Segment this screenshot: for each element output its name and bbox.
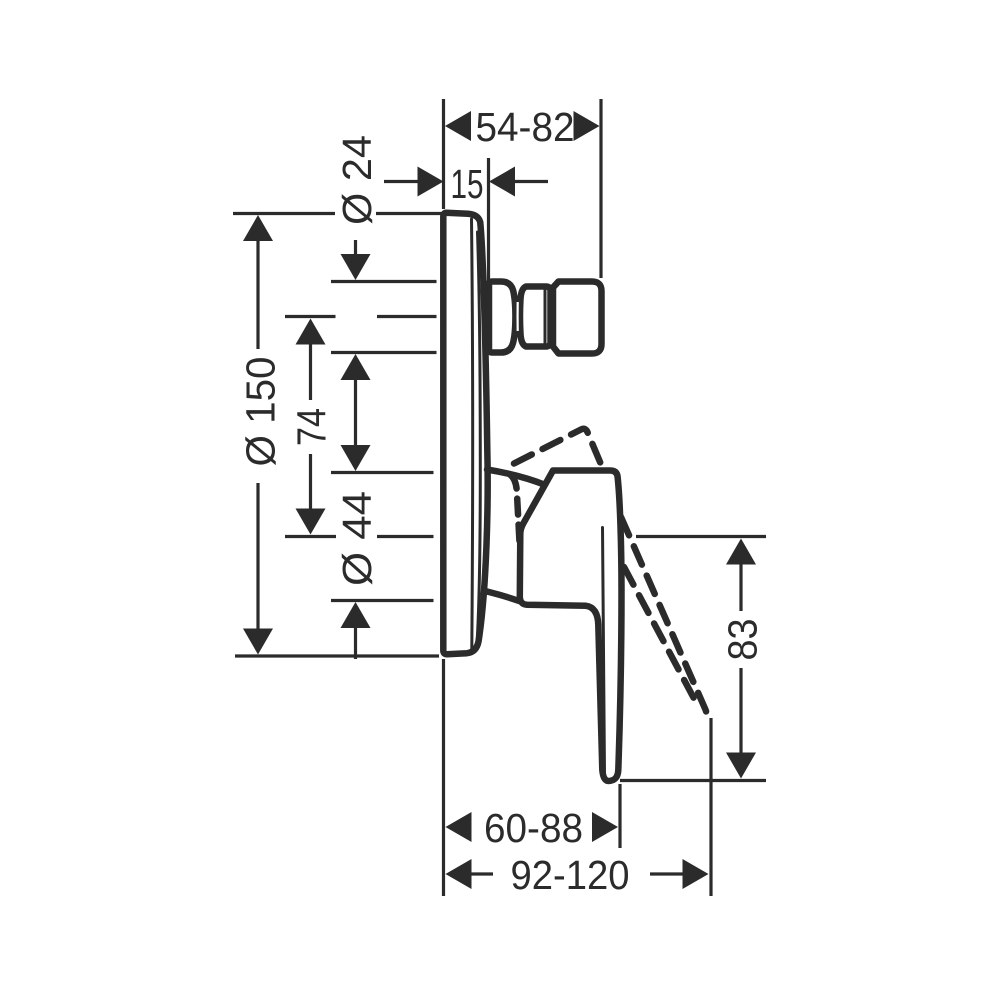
extension line spout end [599, 99, 602, 278]
svg-text:15: 15 [451, 161, 484, 207]
dimension 54-82 right arrow [574, 111, 600, 141]
spout collar [489, 282, 515, 353]
svg-text:54-82: 54-82 [476, 104, 575, 150]
83 bottom reference line [620, 779, 766, 782]
dimension 60-88 right arrow [592, 812, 618, 842]
dimension 54-82 left arrow [445, 111, 471, 141]
handle with lever outline [520, 471, 622, 782]
dimension 15 left line [384, 180, 418, 183]
dimension 74 bottom arrow [296, 509, 326, 535]
shared stem D24-D44 [354, 380, 357, 445]
spout mid inner line [544, 290, 547, 344]
svg-text:60-88: 60-88 [484, 805, 583, 851]
dimension D24 top arrow [341, 254, 371, 280]
dashed handle base curve [510, 475, 520, 549]
svg-text:Ø 44: Ø 44 [334, 491, 380, 586]
spout mid segment [520, 287, 551, 347]
dimension 92-120 right line [650, 872, 683, 875]
extension line plate bulge [487, 158, 490, 290]
83 top reference line [636, 535, 766, 538]
dimension 15 right arrow [489, 167, 515, 197]
bottom extension line dashed lever tip [709, 718, 712, 896]
spout axis center line [285, 315, 437, 318]
plate rim inner line [477, 232, 480, 640]
dimension D24 top stem [354, 240, 357, 255]
top reference line [233, 212, 444, 215]
dimension D150 stem [256, 241, 259, 629]
dashed lever inner edge [621, 517, 706, 715]
D44 top reference line [331, 471, 434, 474]
svg-text:83: 83 [720, 619, 766, 661]
dimension 92-120 right arrow [683, 859, 709, 889]
D44 bottom reference line [331, 599, 434, 602]
spout end segment [553, 282, 602, 354]
dimension D150 bottom arrow [243, 629, 273, 655]
bottom extension line lever tip [618, 784, 621, 848]
bottom extension line plate front [442, 659, 445, 896]
dimension D44 top arrow [341, 445, 371, 471]
bottom reference line [235, 654, 439, 657]
dimension D150 top arrow [243, 215, 273, 241]
dimension 83 bottom arrow [726, 753, 756, 779]
dimension D44 bottom arrow [341, 602, 371, 628]
dashed lever left edge [624, 567, 698, 706]
lever inner face line [603, 528, 605, 776]
plate inner face line [472, 219, 473, 649]
svg-text:Ø 150: Ø 150 [238, 357, 284, 467]
spout top reference line [331, 280, 437, 283]
spout bottom reference line [331, 351, 437, 354]
dimension 92-120 left line [472, 872, 494, 875]
cartridge dome bottom arc [487, 592, 519, 602]
svg-text:74: 74 [289, 408, 335, 446]
dashed handle raised position outline [514, 429, 603, 469]
cartridge dome top arc [487, 470, 544, 485]
dimension D44 bottom stem [354, 628, 357, 659]
dimension 74 stem [309, 344, 312, 509]
escutcheon plate outline [443, 213, 487, 655]
dimension 83 top arrow [726, 539, 756, 565]
svg-text:Ø 24: Ø 24 [334, 135, 380, 225]
dimension 74 top arrow [296, 319, 326, 345]
dimension 15 right line [515, 180, 548, 183]
handle axis center line [285, 535, 434, 538]
extension line plate front top [442, 99, 445, 209]
spout neck highlight [517, 302, 519, 331]
dimension 15 left arrow [418, 167, 444, 197]
dimension 60-88 left arrow [446, 812, 472, 842]
dimension 92-120 left arrow [446, 859, 472, 889]
svg-text:92-120: 92-120 [511, 852, 630, 898]
dimension D24 bottom arrow [341, 354, 371, 380]
dimension 83 stem [739, 564, 742, 753]
